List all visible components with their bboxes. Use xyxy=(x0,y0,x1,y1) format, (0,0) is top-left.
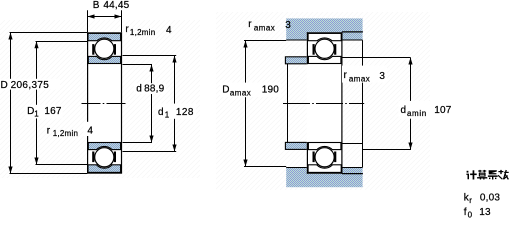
cage bars top xyxy=(92,44,94,55)
housing bore line continuation (top, right of bearing) xyxy=(342,31,363,33)
svg-text:D: D xyxy=(27,106,34,117)
shaft surface line right xyxy=(341,143,363,145)
svg-text:r: r xyxy=(469,196,472,205)
svg-text:amax: amax xyxy=(230,88,251,97)
shaft shoulder block top xyxy=(285,57,307,64)
housing bottom band xyxy=(286,168,362,188)
raceway groove top xyxy=(93,38,115,60)
svg-text:4: 4 xyxy=(166,25,172,36)
outer ring top band (right, white) xyxy=(308,33,341,40)
d_amin extension top xyxy=(342,57,411,59)
inner ring bottom band (right) xyxy=(308,143,341,150)
dimension d 88,9 dim line xyxy=(123,65,153,143)
算 xyxy=(478,170,481,171)
ball bottom (right) xyxy=(315,148,334,167)
shaft cut line xyxy=(287,64,289,143)
housing top band bottom outline xyxy=(286,39,362,41)
svg-text:D: D xyxy=(222,84,229,95)
svg-text:3: 3 xyxy=(285,20,291,31)
svg-text:1,2min: 1,2min xyxy=(53,129,79,138)
dimension B 44,45 : extension lines + dim line xyxy=(88,10,122,32)
svg-text:167: 167 xyxy=(44,106,62,117)
shaft shoulder block bottom xyxy=(285,142,307,149)
系 xyxy=(489,170,497,174)
text D 206,375 (white bg over dim lines) xyxy=(0,79,60,90)
housing bore line continuation (bottom, right of bearing) xyxy=(342,173,363,175)
outer ring bottom band xyxy=(88,165,121,173)
raceway groove top (right) xyxy=(314,38,336,60)
svg-text:13: 13 xyxy=(479,207,491,218)
inner ring top band (right) xyxy=(308,56,341,63)
bearing outline box (right): white body, edges drawn as lines (no left edge across shaft) xyxy=(307,32,343,173)
svg-text:amax: amax xyxy=(254,23,275,32)
dimension d1 128 dim line xyxy=(123,56,177,152)
text 计算系数 (drawn as paths; bold CJK) xyxy=(466,170,509,180)
faint paper texture of the two source drawings xyxy=(0,20,200,178)
svg-text:D: D xyxy=(1,80,8,91)
dimension D 206,375 dim line xyxy=(10,33,88,174)
svg-text:d: d xyxy=(158,107,164,118)
axis line (right view) xyxy=(283,103,364,105)
cage bars bottom (right) xyxy=(313,152,315,163)
svg-text:206,375: 206,375 xyxy=(11,80,50,91)
raceway groove bottom xyxy=(93,146,115,168)
cage bars bottom xyxy=(92,152,94,163)
text d 88,9 (white bg) xyxy=(134,83,166,94)
raceway groove bottom (right) xyxy=(314,146,336,168)
svg-text:4: 4 xyxy=(87,125,93,136)
svg-text:d: d xyxy=(136,84,142,95)
housing bore line xyxy=(362,40,364,167)
outer ring top band xyxy=(88,33,121,40)
text D_1 167 (white bg) xyxy=(26,105,63,119)
svg-text:0,03: 0,03 xyxy=(480,193,501,204)
axis line (left view) xyxy=(82,103,127,105)
svg-text:0: 0 xyxy=(468,211,473,218)
svg-text:1: 1 xyxy=(165,111,170,120)
text r_amax 3 (middle, white bg over bore line) xyxy=(342,66,387,83)
inner ring top band xyxy=(88,56,120,63)
housing bottom band top outline xyxy=(286,167,362,169)
dimension D1 167 dim line xyxy=(36,41,88,164)
outer ring bottom band (right) xyxy=(308,165,341,173)
数 xyxy=(498,171,503,172)
text d_1 128 (white bg) xyxy=(157,104,197,119)
ball top (right) xyxy=(315,39,334,58)
ball bottom xyxy=(95,148,114,167)
svg-text:44,45: 44,45 xyxy=(103,0,129,11)
svg-text:B: B xyxy=(93,0,100,11)
svg-text:88,9: 88,9 xyxy=(144,84,165,95)
text r_1,2min 4 (bottom left, white bg over bearing edge) xyxy=(84,122,94,136)
inner ring bottom band xyxy=(88,143,120,150)
housing top band xyxy=(286,18,362,40)
d_amin dim line xyxy=(410,58,412,150)
text d_amin 107 (white bg) xyxy=(399,101,457,119)
ball top xyxy=(95,39,114,58)
bearing outline box xyxy=(88,33,122,173)
svg-text:107: 107 xyxy=(434,105,452,116)
d_amin extension bottom xyxy=(363,149,411,151)
cage bars top (right) xyxy=(313,44,315,55)
svg-text:1,2min: 1,2min xyxy=(130,28,156,37)
svg-text:1: 1 xyxy=(34,110,39,119)
svg-text:190: 190 xyxy=(262,84,280,95)
svg-text:amin: amin xyxy=(407,109,427,118)
svg-text:amax: amax xyxy=(349,74,370,83)
D_amax dim xyxy=(244,41,286,167)
svg-text:f: f xyxy=(464,207,467,218)
计 xyxy=(467,171,469,173)
text D_amax 190 (white bg) xyxy=(220,83,281,98)
svg-text:d: d xyxy=(401,105,407,116)
svg-text:3: 3 xyxy=(379,71,385,82)
svg-text:128: 128 xyxy=(176,107,194,118)
